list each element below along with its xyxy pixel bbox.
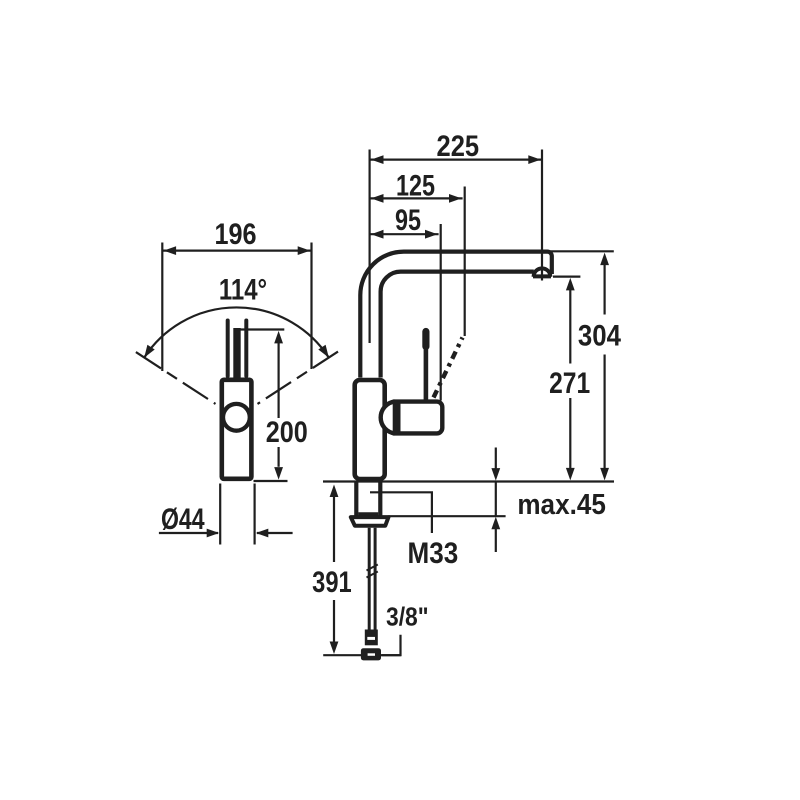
- countertop reference line: [323, 480, 614, 482]
- dimension 225: right extension line (spout outlet): [541, 150, 543, 281]
- dimension 271: up arrowhead: [566, 278, 575, 291]
- dimension 95: dimension line: [370, 233, 439, 235]
- dimension 200: down arrowhead: [274, 467, 283, 480]
- dimension 391: upper stem: [333, 497, 335, 563]
- handle housing separator line: [397, 402, 401, 434]
- threaded shank right wall: [378, 482, 382, 516]
- dimension 304: upper stem: [603, 265, 605, 315]
- dimension max.45: lower stem: [495, 529, 497, 553]
- dimension 200: up arrowhead: [274, 331, 283, 344]
- faucet body (side view): [355, 380, 385, 479]
- dimension Ø44: right arrowhead (pointing left): [256, 529, 268, 538]
- hose connector ribs: [365, 630, 378, 646]
- dimension 304: up arrowhead: [600, 253, 609, 266]
- dimension 125: extension line (lever tilted): [464, 187, 466, 337]
- dimension 304: down arrowhead: [600, 468, 609, 481]
- dimension Ø44: left leader line: [159, 532, 218, 534]
- spout outer profile (riser + arm top + end): [360, 252, 552, 378]
- dimension 125: left arrowhead: [371, 194, 384, 203]
- dimension 196: dimension line: [162, 250, 311, 252]
- 3/8" leader line: [382, 635, 401, 655]
- dimension 271: top tick line: [553, 276, 580, 278]
- threaded shank left wall: [354, 482, 358, 516]
- swivel arc right arrowhead: [318, 345, 329, 358]
- dimension Ø44: right leader line: [257, 532, 293, 534]
- hose break mark lower: [367, 572, 378, 578]
- spout end cap bottom line: [533, 274, 551, 278]
- hose end nut notch: [368, 653, 375, 656]
- dimension 225: left arrowhead: [371, 155, 384, 164]
- svg-text:304: 304: [578, 319, 621, 352]
- dimension 200: bottom tick line: [254, 480, 288, 482]
- M33 leader line: [370, 492, 432, 533]
- mounting flange: [351, 517, 389, 526]
- dimension 271: lower stem: [569, 398, 571, 468]
- svg-text:271: 271: [549, 366, 590, 400]
- lever handle stem: [424, 346, 429, 401]
- spout pipe left line (front view): [226, 321, 230, 377]
- handle housing left cap: [381, 402, 395, 434]
- dimension Ø44: right extension line: [254, 484, 256, 545]
- dimension 391: up arrowhead: [330, 485, 339, 498]
- dimension max.45: upper stem: [495, 448, 497, 470]
- swivel arc 114°: [144, 307, 329, 357]
- dimension 391: down arrowhead: [330, 642, 339, 655]
- svg-text:391: 391: [312, 565, 352, 598]
- handle ball (front view): [223, 404, 250, 431]
- swing range dashed line right: [258, 352, 339, 404]
- dimension max.45: up arrowhead: [491, 517, 500, 530]
- svg-text:200: 200: [266, 415, 308, 449]
- dimension 125: right arrowhead: [449, 194, 462, 203]
- svg-text:max.45: max.45: [517, 488, 606, 521]
- supply hose left line: [368, 528, 371, 630]
- lever handle tilted (dashed): [434, 338, 463, 398]
- hose end nut 3/8": [361, 648, 381, 660]
- faucet body (front view): [222, 380, 252, 479]
- dimension Ø44: left arrowhead (pointing right): [207, 529, 220, 538]
- svg-text:114°: 114°: [219, 272, 267, 306]
- dimension 196: left arrowhead: [164, 246, 177, 255]
- dimension 196: right extension line: [310, 243, 312, 370]
- dimension 271: down arrowhead: [566, 468, 575, 481]
- swing range dashed line left: [136, 352, 216, 404]
- dimension 196: right arrowhead: [298, 246, 311, 255]
- dimension 225: right arrowhead: [528, 155, 541, 164]
- svg-text:95: 95: [395, 203, 421, 236]
- svg-text:196: 196: [214, 217, 256, 251]
- svg-text:Ø44: Ø44: [161, 502, 205, 536]
- dimension max.45: down arrowhead: [491, 468, 500, 481]
- dimension 196: left extension line: [161, 243, 163, 372]
- dimension 271: upper stem: [569, 290, 571, 364]
- svg-text:M33: M33: [408, 536, 459, 569]
- svg-text:3/8": 3/8": [386, 603, 429, 632]
- dimension 95: left arrowhead: [371, 230, 384, 239]
- dimension 200: upper stem: [278, 343, 280, 419]
- dimension max.45: tick line: [389, 515, 506, 517]
- dimension 304: lower stem: [603, 355, 605, 469]
- dimension 225: left extension line (faucet axis): [369, 150, 371, 344]
- lever handle tip: [422, 332, 429, 347]
- dimension Ø44: left extension line: [219, 484, 221, 545]
- spout inner profile (riser + arm bottom): [381, 272, 534, 378]
- dimension 304: top tick line: [542, 250, 614, 252]
- dimension 225: dimension line: [370, 159, 542, 161]
- handle housing body: [395, 402, 442, 434]
- dimension 95: right arrowhead: [425, 230, 438, 239]
- supply hose right line: [374, 528, 377, 630]
- dimension 125: dimension line: [370, 197, 463, 199]
- threaded shank bottom inner line: [358, 512, 378, 515]
- hose end reference line: [323, 654, 401, 656]
- hose break mark upper: [367, 565, 378, 571]
- spout center bar (front view): [233, 328, 240, 410]
- dimension 391: lower stem: [333, 600, 335, 643]
- svg-text:225: 225: [437, 129, 480, 162]
- dimension 95: extension line (lever upright): [440, 224, 442, 401]
- dimension 200: top tick line: [237, 328, 284, 330]
- dimension max.45: crossing line: [495, 482, 497, 517]
- svg-text:125: 125: [396, 169, 435, 202]
- spout pipe right line (front view): [244, 321, 248, 377]
- hose connector rib notch: [367, 637, 375, 640]
- aerator dome: [534, 268, 551, 276]
- swivel arc left arrowhead: [144, 345, 155, 358]
- dimension 200: lower stem: [278, 447, 280, 467]
